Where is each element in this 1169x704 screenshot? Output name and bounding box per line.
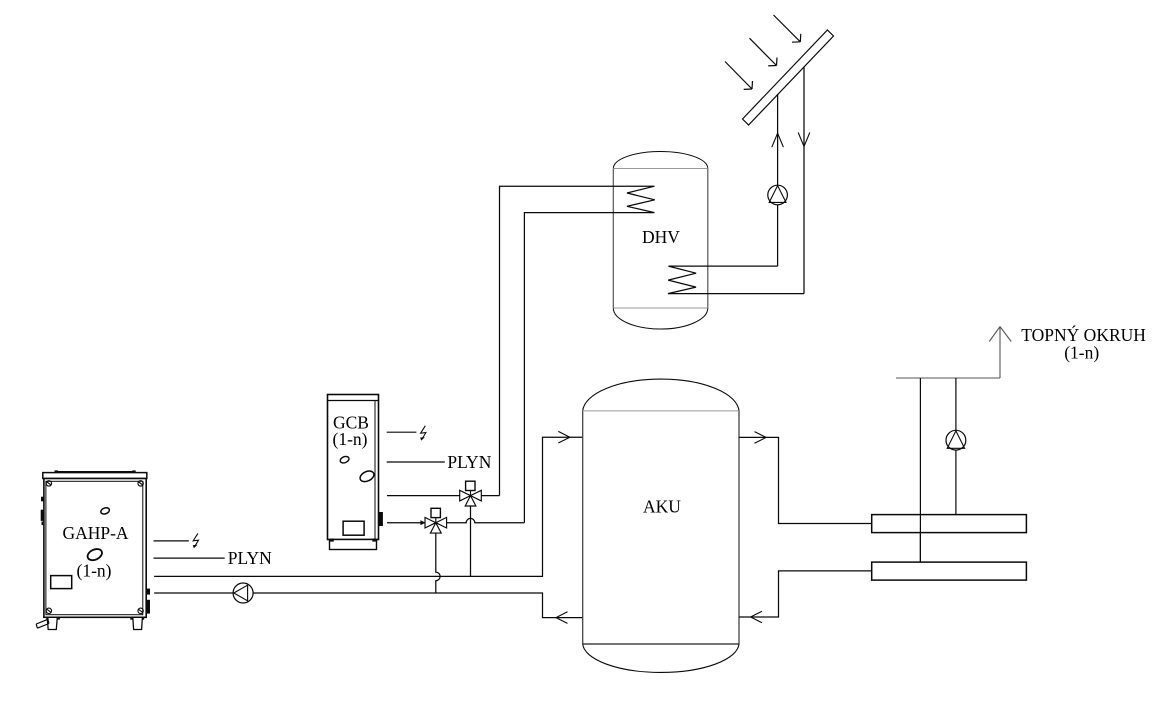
arrow out of AKU top-right: [755, 432, 767, 444]
DHV upper coil with pipes to valves: [500, 186, 655, 523]
AKU top-right pipe to upper manifold: [739, 437, 872, 523]
DHV tank: [613, 151, 708, 329]
heating circuit top bar: [896, 377, 1000, 379]
GCB electric line: [387, 431, 417, 433]
return drop pipe to lower manifold: [919, 378, 921, 562]
upper manifold: [872, 515, 1027, 533]
arrow into AKU top-left: [558, 431, 570, 443]
lower manifold pipe to AKU bottom-right: [739, 571, 872, 617]
solar collector panel: [743, 30, 834, 125]
heating circuit riser with up arrow: [989, 327, 1011, 378]
corner screws: [46, 481, 143, 614]
three-way valve V2: [425, 508, 447, 533]
sun ray arrow 3: [725, 62, 753, 90]
arrow down on right solar pipe: [798, 133, 810, 147]
arrow into AKU bottom-right: [751, 611, 762, 623]
GCB lightning bolt: [420, 426, 426, 441]
DHV lower coil with solar pipes: [668, 266, 804, 294]
GAHP PLYN line: [154, 557, 225, 559]
supply pipe GAHP to AKU top-left: [154, 437, 583, 576]
sun ray arrow 2: [750, 38, 778, 66]
arrow up on left solar pipe: [772, 133, 784, 147]
solar pump P2: [768, 185, 788, 205]
right connector stubs: [147, 589, 150, 595]
pipe valve V2 right port to riser with hop over V1 drop: [447, 518, 525, 522]
AKU tank: [583, 379, 739, 672]
valve V1 drop pipe to supply line: [470, 506, 472, 576]
pump P3 on heating supply: [946, 430, 966, 450]
small oval logo: [100, 507, 110, 515]
solar pipe left (collector to DHV lower coil top): [777, 94, 779, 266]
valve V2 drop pipe with hop over supply line: [436, 533, 440, 593]
left connector stubs: [41, 497, 44, 502]
lower manifold: [872, 562, 1027, 580]
GAHP-A unit: [36, 470, 150, 629]
svg-text:(1-n): (1-n): [77, 560, 112, 580]
pipe valve V1 right port to riser: [481, 495, 500, 497]
svg-text:(1-n): (1-n): [1064, 343, 1099, 363]
svg-text:PLYN: PLYN: [228, 548, 272, 568]
sun ray arrow 1: [774, 15, 801, 42]
GAHP electric line: [154, 540, 189, 542]
big oval logo: [86, 547, 104, 562]
GCB unit: [328, 395, 383, 550]
GCB supply pipe to valve V1: [387, 495, 460, 497]
supply drop pipe from upper manifold: [955, 378, 957, 515]
GAHP lightning bolt: [193, 533, 199, 548]
svg-text:(1-n): (1-n): [333, 429, 368, 449]
return drop crossing upper manifold: [919, 515, 921, 563]
feet: [47, 617, 57, 629]
GCB return pipe to valve V2: [387, 522, 425, 524]
flow arrow into valve V2: [420, 520, 425, 525]
svg-text:GAHP-A: GAHP-A: [62, 523, 128, 543]
svg-text:DHV: DHV: [642, 227, 680, 247]
drain cock: [36, 619, 49, 628]
return pipe AKU bottom-left to GAHP: [154, 593, 583, 618]
arrow out of AKU bottom-left: [556, 612, 568, 624]
svg-text:AKU: AKU: [643, 497, 681, 517]
svg-text:PLYN: PLYN: [447, 452, 491, 472]
three-way valve V1: [460, 481, 482, 506]
GCB PLYN line: [387, 461, 445, 463]
solar pipe right (collector to DHV lower coil bottom): [803, 68, 805, 294]
label plate: [51, 576, 72, 589]
pump P1 on return pipe: [233, 583, 253, 603]
